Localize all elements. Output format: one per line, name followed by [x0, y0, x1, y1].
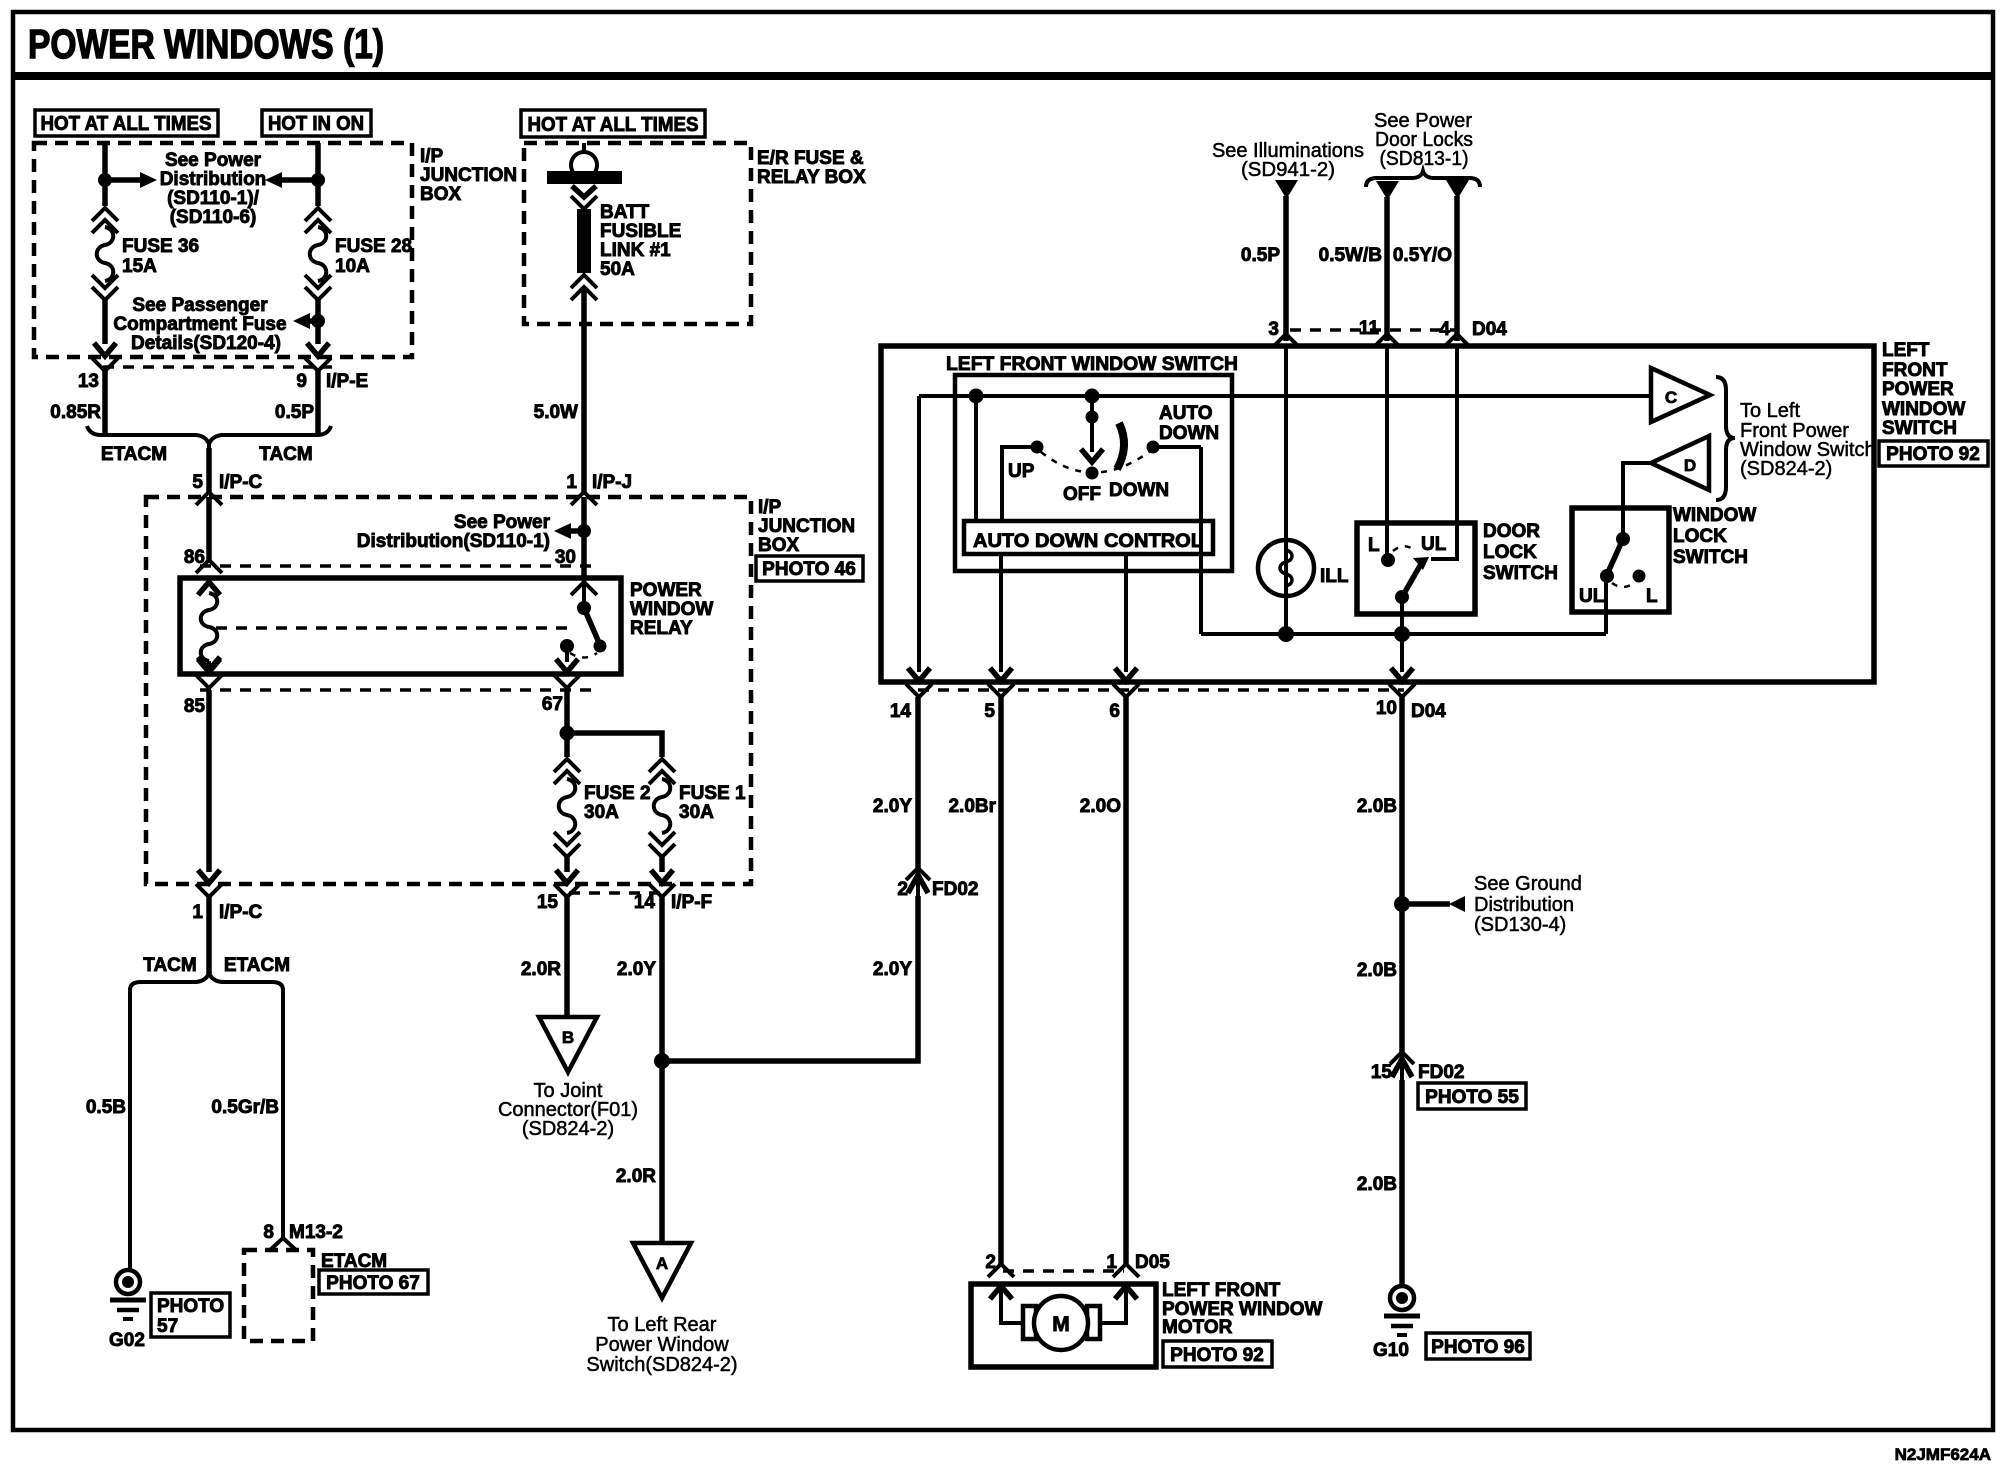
L contact node (window lock) — [1633, 570, 1646, 583]
wire pin 10 drop — [1400, 634, 1404, 672]
bus merge brace ETACM/TACM — [87, 426, 331, 450]
svg-text:Compartment Fuse: Compartment Fuse — [113, 314, 286, 335]
svg-text:BATT: BATT — [600, 202, 650, 223]
wire 2.0Y (pin14) down to FD02 — [915, 697, 921, 869]
svg-text:A: A — [656, 1254, 668, 1273]
svg-text:10: 10 — [1376, 698, 1397, 719]
svg-text:2.0B: 2.0B — [1357, 1174, 1397, 1195]
wire below FUSE 28 — [315, 300, 321, 344]
svg-text:WINDOW: WINDOW — [1673, 505, 1756, 526]
wire 0.85R — [102, 371, 108, 434]
rocker arm (bold curve) — [1117, 423, 1124, 469]
svg-text:5.0W: 5.0W — [534, 402, 578, 423]
svg-text:G10: G10 — [1373, 1340, 1409, 1361]
svg-text:I/P: I/P — [758, 497, 782, 518]
svg-text:MOTOR: MOTOR — [1162, 1317, 1233, 1338]
wire 2.0B to ground G10 — [1399, 1080, 1405, 1287]
svg-text:PHOTO 92: PHOTO 92 — [1170, 1345, 1264, 1366]
arrow at box bottom (pin6) — [1115, 668, 1137, 681]
relay internal dashed link — [216, 626, 576, 630]
relay arm travel dashed arc — [570, 653, 597, 658]
arm travel dashed arc — [1393, 546, 1414, 551]
svg-text:(SD813-1): (SD813-1) — [1380, 148, 1469, 170]
svg-text:BOX: BOX — [758, 535, 800, 556]
label LEFT FRONT POWER WINDOW MOTOR — [1162, 1280, 1322, 1338]
wire pin 5 from control box — [999, 554, 1003, 672]
svg-text:5: 5 — [192, 472, 203, 493]
svg-text:M13-2: M13-2 — [289, 1222, 343, 1243]
fuse F1 element — [654, 779, 671, 833]
svg-text:I/P-J: I/P-J — [592, 472, 632, 493]
window lock arm — [1609, 539, 1623, 570]
ref text See Illuminations (SD941-2) — [1212, 140, 1364, 181]
connector chevrons above FUSE 36 — [92, 208, 118, 221]
relay coil winding — [201, 593, 218, 661]
wire stub above battery — [582, 143, 586, 152]
svg-text:HOT AT ALL TIMES: HOT AT ALL TIMES — [41, 113, 212, 135]
svg-text:SWITCH: SWITCH — [1483, 563, 1558, 584]
wire lamp feed (0.5P) — [1284, 346, 1288, 634]
lamp ILL circle — [1258, 540, 1314, 596]
arrow at box bottom (pin5) — [990, 668, 1012, 681]
svg-text:OFF: OFF — [1063, 484, 1101, 505]
svg-text:FD02: FD02 — [932, 879, 978, 900]
wire pin67 down to fuse junction — [564, 690, 570, 757]
label FUSE 1 30A — [679, 783, 746, 823]
wire: arrow to See Power Distribution (right) — [105, 177, 141, 183]
fuse F2 element — [559, 779, 576, 833]
connector row D04 (bottom, dashed) — [918, 688, 1404, 692]
svg-text:LEFT FRONT WINDOW SWITCH: LEFT FRONT WINDOW SWITCH — [946, 354, 1238, 375]
arrow down at relay bottom — [556, 659, 578, 672]
svg-text:PHOTO 46: PHOTO 46 — [762, 559, 856, 580]
svg-text:85: 85 — [184, 696, 206, 717]
wire 0.5W/B to L contact — [1385, 346, 1389, 556]
svg-text:ETACM: ETACM — [101, 444, 167, 465]
node: junction See Power Distribution(SD110-1) — [577, 524, 591, 538]
chevron into motor (pin2) — [988, 1264, 1014, 1277]
wire: arrow from HOT IN ON wire to text (left) — [281, 177, 318, 183]
ref text See Power Distribution (SD110-1)/(SD110-6) — [160, 150, 267, 228]
label LEFT FRONT POWER WINDOW SWITCH (right side) — [1882, 340, 1965, 439]
arrow at box bottom (pin14) — [908, 668, 930, 681]
wire stub to arrow — [570, 528, 584, 534]
svg-text:6: 6 — [1109, 701, 1120, 722]
wire window lock common to triangle D — [1623, 463, 1651, 539]
ground G02 — [110, 1270, 146, 1319]
over-brace for door lock wires — [1366, 171, 1480, 187]
arrow into motor box (pin2) — [990, 1286, 1012, 1299]
relay coil arrow down — [198, 657, 220, 670]
lamp filament squiggle — [1280, 550, 1292, 586]
switch travel dashed arc UP-OFF-DOWN — [1041, 452, 1149, 473]
svg-text:See Power: See Power — [454, 512, 551, 533]
svg-text:DOWN: DOWN — [1159, 423, 1219, 444]
wire 0.5B to ground — [128, 988, 132, 1270]
wire 2.0Br (pin5) down to motor — [998, 697, 1004, 1264]
svg-text:DOOR: DOOR — [1483, 521, 1540, 542]
chevron below box (pin14) — [906, 684, 932, 697]
label BATT FUSIBLE LINK #1 50A — [600, 202, 681, 280]
arrowhead left — [293, 313, 310, 329]
chevron entering I/P junction box (I/P-J) — [571, 492, 597, 505]
inner window switch box — [955, 375, 1232, 571]
wire contact to pin 67 — [565, 646, 569, 662]
I/P junction box 2 (dashed) — [146, 497, 751, 884]
svg-text:10A: 10A — [335, 256, 370, 277]
svg-text:0.5Y/O: 0.5Y/O — [1393, 245, 1452, 266]
svg-text:POWER WINDOWS (1): POWER WINDOWS (1) — [28, 21, 384, 67]
svg-text:RELAY BOX: RELAY BOX — [757, 167, 866, 188]
svg-text:To Left: To Left — [1740, 400, 1800, 422]
arrowhead left — [265, 172, 282, 188]
chevron at pin 86 — [196, 560, 222, 573]
svg-text:SWITCH: SWITCH — [1882, 418, 1957, 439]
wire branch to FUSE 1 — [567, 733, 662, 757]
arrow down at relay bottom (pin85) — [198, 659, 220, 672]
wire below FUSE 36 — [102, 300, 108, 344]
connector triangle B — [539, 1017, 597, 1072]
svg-text:BOX: BOX — [420, 184, 462, 205]
wire pin85 down to 1 I/P-C — [206, 690, 212, 872]
banner HOT IN ON — [262, 110, 371, 136]
label I/P JUNCTION BOX (2) — [758, 497, 855, 556]
L contact node — [1381, 553, 1395, 567]
wire from center node to OFF contact — [1090, 396, 1094, 452]
svg-text:(SD110-1)/: (SD110-1)/ — [167, 188, 260, 209]
wire 0.5P — [315, 371, 321, 434]
svg-text:JUNCTION: JUNCTION — [758, 516, 855, 537]
wire to 5 I/P-C — [206, 448, 212, 493]
svg-text:0.5Gr/B: 0.5Gr/B — [211, 1097, 279, 1118]
svg-text:G02: G02 — [109, 1330, 145, 1351]
svg-text:Distribution: Distribution — [160, 169, 267, 190]
connector triangle C — [1651, 368, 1710, 422]
wire 5.0W down to I/P-J — [581, 287, 587, 493]
relay arm tip node — [594, 640, 607, 653]
svg-text:Switch(SD824-2): Switch(SD824-2) — [586, 1354, 737, 1376]
battery terminal circle — [571, 152, 597, 178]
node on horizontal (center) — [1085, 389, 1100, 404]
chevron below box (pin10) — [1389, 684, 1415, 697]
svg-text:15: 15 — [1371, 1062, 1393, 1083]
arrowhead left (ground distribution) — [1449, 896, 1465, 912]
svg-text:PHOTO 92: PHOTO 92 — [1886, 444, 1980, 465]
inline connector 2 FD02 — [906, 868, 930, 896]
svg-text:13: 13 — [78, 371, 99, 392]
ground G10 — [1384, 1286, 1420, 1335]
motor brush right — [1087, 1306, 1100, 1339]
svg-text:PHOTO 55: PHOTO 55 — [1425, 1087, 1519, 1108]
fuse F28 element — [310, 227, 327, 281]
svg-text:I/P-C: I/P-C — [219, 902, 263, 923]
wire 2.0B (pin10) down — [1399, 697, 1405, 1053]
wire branch to FD02 (horizontal) — [662, 896, 918, 1061]
svg-text:1: 1 — [566, 472, 577, 493]
wire AUTO DOWN contact to right drop — [1153, 445, 1201, 449]
chevron below box2 (fuse2) — [554, 884, 580, 897]
chevron below box edge (wire B) — [305, 358, 331, 371]
relay switch pivot node — [577, 601, 591, 615]
chevron entering I/P junction box — [196, 492, 222, 505]
svg-text:D04: D04 — [1472, 319, 1507, 340]
E/R fuse & relay box (dashed) — [524, 143, 751, 324]
chevron below box2 (fuse1) — [649, 884, 675, 897]
svg-text:B: B — [562, 1028, 574, 1047]
motor circle M — [1034, 1296, 1088, 1350]
svg-text:PHOTO: PHOTO — [157, 1296, 224, 1317]
svg-text:2.0R: 2.0R — [616, 1166, 656, 1187]
wire TACM/ETACM stem — [206, 897, 212, 976]
svg-text:To Left Rear: To Left Rear — [608, 1314, 717, 1336]
chevron connector — [571, 196, 597, 209]
photo ref box PHOTO 57 — [151, 1293, 230, 1337]
arrow into I/P-E connector (wire B) — [307, 343, 329, 356]
wire UP contact to control box — [1002, 447, 1037, 521]
svg-text:I/P-C: I/P-C — [219, 472, 263, 493]
arrow at I/P box2 bottom (wire 85) — [198, 870, 220, 883]
wire: HOT IN ON feed — [315, 143, 321, 206]
svg-text:(SD941-2): (SD941-2) — [1241, 159, 1335, 181]
svg-text:AUTO: AUTO — [1159, 403, 1212, 424]
node bus/lamp — [1278, 626, 1294, 642]
photo ref box PHOTO 67 — [319, 1270, 428, 1294]
ref text See Ground Distribution (SD130-4) — [1474, 873, 1582, 936]
svg-text:2.0Y: 2.0Y — [617, 959, 656, 980]
chevron below box2 (wire 85) — [196, 884, 222, 897]
relay bottom connector row (dashed) — [200, 688, 592, 692]
label FUSE 28 10A — [335, 236, 412, 277]
chevrons below FUSE 2 — [554, 832, 580, 845]
I/P junction box (top-left, dashed) — [34, 143, 412, 357]
svg-text:5: 5 — [984, 701, 995, 722]
svg-text:2.0Br: 2.0Br — [948, 796, 996, 817]
svg-text:1: 1 — [192, 902, 203, 923]
motor brush left — [1023, 1306, 1036, 1339]
svg-text:FRONT: FRONT — [1882, 360, 1948, 381]
chevrons above FUSE 1 — [649, 759, 675, 772]
arrow at box bottom (pin10) — [1391, 668, 1413, 681]
AUTO DOWN contact node — [1147, 441, 1160, 454]
svg-text:2.0R: 2.0R — [521, 959, 561, 980]
svg-text:JUNCTION: JUNCTION — [420, 165, 517, 186]
svg-text:HOT IN ON: HOT IN ON — [268, 113, 364, 135]
banner HOT AT ALL TIMES (E/R) — [521, 110, 705, 137]
ref text See Power Distribution(SD110-1) — [357, 512, 551, 552]
svg-text:(SD130-4): (SD130-4) — [1474, 914, 1566, 936]
svg-text:9: 9 — [296, 371, 307, 392]
wire common to bus — [1400, 597, 1404, 634]
svg-text:LINK #1: LINK #1 — [600, 240, 671, 261]
svg-text:FUSE 28: FUSE 28 — [335, 236, 412, 257]
chevron inside relay at 30 — [571, 582, 597, 595]
svg-text:(SD824-2): (SD824-2) — [522, 1118, 614, 1140]
wire 2.0R to triangle B — [564, 897, 570, 1017]
svg-text:POWER: POWER — [1882, 379, 1954, 400]
svg-text:30A: 30A — [679, 802, 714, 823]
svg-text:LEFT: LEFT — [1882, 340, 1930, 361]
svg-text:PHOTO 96: PHOTO 96 — [1431, 1337, 1525, 1358]
svg-text:Distribution: Distribution — [1474, 894, 1574, 916]
photo ref box PHOTO 46 — [756, 556, 863, 581]
wire 2.0O (pin6) down to motor — [1123, 697, 1129, 1264]
fuse F36 element — [97, 227, 114, 281]
wire bus up to window lock switch — [1604, 578, 1608, 634]
svg-text:SWITCH: SWITCH — [1673, 547, 1748, 568]
node on horizontal (left) — [969, 389, 984, 404]
svg-text:TACM: TACM — [143, 955, 196, 976]
label WINDOW LOCK SWITCH — [1673, 505, 1756, 568]
OFF contact node — [1086, 467, 1099, 480]
inline connector 15 FD02 — [1390, 1052, 1414, 1080]
svg-text:N2JMF624A: N2JMF624A — [1895, 1445, 1991, 1464]
label E/R FUSE & RELAY BOX — [757, 148, 866, 188]
svg-text:2.0Y: 2.0Y — [873, 959, 912, 980]
bus wire (lamp/door-lock/window-lock common) — [1201, 632, 1606, 636]
svg-text:2.0B: 2.0B — [1357, 796, 1397, 817]
wire auto-down drop to bus — [1199, 447, 1203, 634]
arrow at box2 bottom (fuse1) — [651, 870, 673, 883]
svg-text:FUSE 36: FUSE 36 — [122, 236, 199, 257]
svg-text:FUSE 2: FUSE 2 — [584, 783, 651, 804]
connector row I/P-E dashed — [103, 365, 332, 369]
node: junction on fuse36 wire — [98, 173, 112, 187]
svg-text:WINDOW: WINDOW — [1882, 399, 1965, 420]
svg-text:3: 3 — [1268, 319, 1279, 340]
svg-text:1: 1 — [1106, 1252, 1117, 1273]
connector triangle A — [633, 1243, 691, 1298]
fusible link BATT #1 (thick bar) — [577, 209, 591, 273]
svg-text:FUSIBLE: FUSIBLE — [600, 221, 681, 242]
svg-text:UL: UL — [1579, 586, 1605, 607]
svg-text:0.5W/B: 0.5W/B — [1319, 245, 1382, 266]
photo ref box PHOTO 55 — [1418, 1083, 1526, 1109]
label POWER WINDOW RELAY — [630, 580, 713, 639]
wire from I/P-J down to relay pin 30 — [581, 497, 587, 578]
svg-text:8: 8 — [263, 1222, 274, 1243]
auto down control box — [964, 521, 1213, 554]
door lock switch arm — [1402, 564, 1421, 597]
chevron below relay pin 85 — [196, 675, 222, 688]
motor box — [971, 1284, 1156, 1367]
chevrons below fusible link — [571, 275, 597, 288]
svg-text:0.5P: 0.5P — [1241, 245, 1280, 266]
connector row I/P-F dashed — [569, 891, 660, 895]
svg-text:14: 14 — [634, 892, 656, 913]
arrowhead right — [140, 172, 157, 188]
wire pin 6 from control box — [1124, 554, 1128, 672]
svg-text:See Power: See Power — [165, 150, 262, 171]
svg-text:M: M — [1052, 1313, 1070, 1336]
off-page arrowhead (0.5P) — [1275, 180, 1298, 199]
svg-text:4: 4 — [1439, 319, 1450, 340]
svg-text:LOCK: LOCK — [1483, 542, 1537, 563]
node: fuse feed junction — [560, 726, 575, 741]
svg-text:0.5P: 0.5P — [275, 402, 314, 423]
wire pin 14 vertical — [917, 396, 921, 672]
svg-text:2.0O: 2.0O — [1080, 796, 1121, 817]
svg-text:HOT AT ALL TIMES: HOT AT ALL TIMES — [528, 114, 699, 136]
svg-text:UP: UP — [1008, 461, 1035, 482]
label FUSE 36 15A — [122, 236, 199, 277]
title separator bar — [13, 72, 1993, 80]
svg-text:Power Window: Power Window — [595, 1334, 729, 1356]
svg-text:FD02: FD02 — [1418, 1062, 1464, 1083]
node: junction with FD02 branch — [654, 1053, 670, 1069]
connector row D05 dashed — [1003, 1269, 1124, 1273]
svg-text:Distribution(SD110-1): Distribution(SD110-1) — [357, 531, 550, 552]
arrow into I/P-E connector (wire A) — [94, 343, 116, 356]
chevron into switch box (0.5W/B) — [1374, 334, 1400, 347]
svg-text:Details(SD120-4): Details(SD120-4) — [131, 333, 281, 354]
chevron into switch box (0.5Y/O) — [1444, 334, 1470, 347]
svg-text:FUSE 1: FUSE 1 — [679, 783, 746, 804]
svg-text:15A: 15A — [122, 256, 157, 277]
svg-text:LEFT FRONT: LEFT FRONT — [1162, 1280, 1281, 1301]
wire 0.5P down to D04-3 — [1283, 196, 1289, 341]
label DOOR LOCK SWITCH — [1483, 521, 1558, 584]
relay coil arrow up — [198, 582, 220, 595]
connector triangle D — [1651, 436, 1709, 490]
wire Y-split into ETACM box — [269, 1238, 297, 1251]
chevron below bus bar — [572, 186, 596, 197]
door lock switch box — [1357, 523, 1475, 614]
svg-text:LOCK: LOCK — [1673, 526, 1727, 547]
battery bus bar — [547, 171, 622, 184]
photo ref box PHOTO 96 — [1426, 1333, 1530, 1359]
wire 2.0Y down from pin 14 — [659, 897, 665, 1243]
svg-text:TACM: TACM — [259, 444, 312, 465]
wire: fuse36 feed from HOT AT ALL TIMES — [102, 143, 108, 206]
svg-text:ETACM: ETACM — [224, 955, 290, 976]
svg-text:(SD110-6): (SD110-6) — [170, 207, 257, 228]
ref text To Left Front Power Window Switch (SD824-2) — [1740, 400, 1876, 480]
off-page arrowhead (0.5Y/O) — [1446, 180, 1469, 199]
svg-text:ILL: ILL — [1320, 566, 1349, 587]
svg-text:14: 14 — [890, 701, 912, 722]
svg-text:L: L — [1646, 586, 1658, 607]
banner HOT AT ALL TIMES — [35, 110, 218, 136]
svg-text:15: 15 — [537, 892, 559, 913]
svg-text:C: C — [1665, 388, 1677, 407]
wire FUSE1 to I/P-F — [659, 857, 665, 872]
wire from I/P-C into relay pin 86 — [206, 497, 212, 560]
ref text To Left Rear Power Window Switch(SD824-2) — [586, 1314, 737, 1376]
svg-text:30: 30 — [555, 547, 576, 568]
svg-text:E/R FUSE &: E/R FUSE & — [757, 148, 864, 169]
svg-text:(SD824-2): (SD824-2) — [1740, 458, 1832, 480]
node: junction to passenger fuse note — [311, 314, 325, 328]
relay switch arm — [584, 608, 600, 645]
label AUTO DOWN — [1159, 403, 1219, 444]
svg-text:RELAY: RELAY — [630, 618, 693, 639]
relay contact node (87 side) — [560, 639, 574, 653]
svg-text:I/P-E: I/P-E — [326, 371, 368, 392]
left front power window switch box — [881, 346, 1874, 682]
connector chevrons above FUSE 28 — [305, 208, 331, 221]
ref text See Power Door Locks (SD813-1) — [1374, 110, 1473, 170]
power window relay box — [180, 578, 621, 674]
brace for triangles C/D — [1716, 377, 1735, 500]
window lock switch box — [1572, 508, 1669, 612]
svg-text:I/P-F: I/P-F — [671, 892, 712, 913]
svg-text:PHOTO 67: PHOTO 67 — [326, 1273, 420, 1294]
svg-text:57: 57 — [157, 1316, 178, 1337]
wire: main horizontal to triangle C — [919, 394, 1651, 398]
svg-text:2.0B: 2.0B — [1357, 960, 1397, 981]
chevron below box (pin5) — [988, 684, 1014, 697]
connector chevrons below FUSE 28 — [305, 275, 331, 288]
